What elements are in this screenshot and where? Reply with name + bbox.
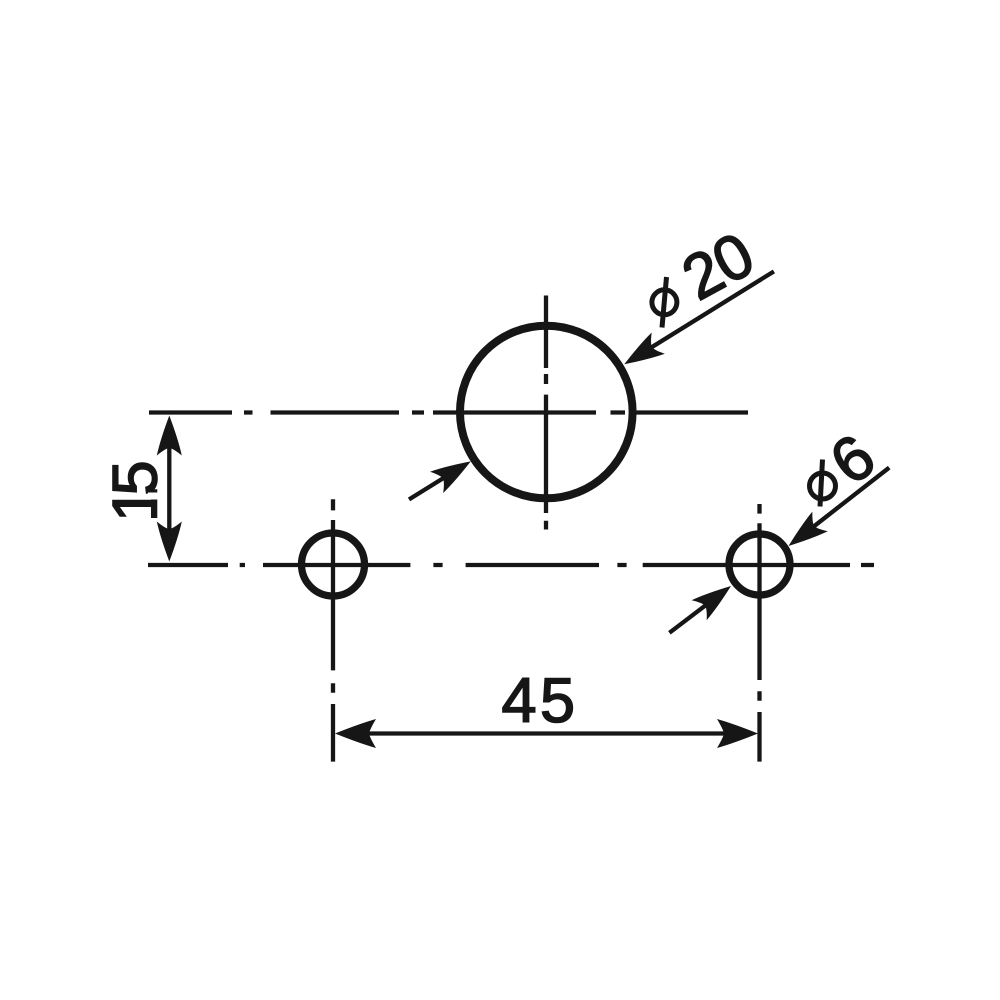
leader line D20 [633, 271, 774, 358]
phi symbol of D6 label [810, 473, 836, 499]
leader line D6 [796, 468, 889, 540]
svg-text:45: 45 [502, 666, 579, 736]
leader D6 second arrowhead [692, 576, 739, 620]
centerline horizontal upper (through D20 center) [149, 410, 748, 414]
dimension line 15 [167, 427, 171, 550]
leader D20 second arrow line (lower left) [409, 467, 462, 500]
dim45 arrow left [335, 719, 376, 748]
hole circle D6 left [302, 533, 365, 596]
leader D20 arrowhead [618, 332, 665, 374]
phi symbol of D20 label [652, 290, 677, 315]
centerline horizontal lower (through D6 centers) [148, 563, 874, 567]
svg-text:6: 6 [818, 421, 888, 498]
dim15 arrow up [157, 416, 182, 456]
dim45 arrow right [717, 719, 758, 748]
dim15 arrow down [157, 522, 182, 562]
dimension line 45 [349, 731, 744, 735]
centerline vertical D6 right [757, 504, 761, 762]
leader D20 second arrowhead [430, 451, 477, 493]
svg-text:15: 15 [101, 462, 171, 522]
white patch between 1 and 5 [148, 493, 160, 500]
hole circle D6 right [729, 534, 790, 595]
hole circle D20 [460, 326, 633, 499]
leader D6 second arrow line (lower left) [669, 591, 724, 633]
centerline vertical D20 [544, 296, 548, 530]
leader D6 arrowhead [781, 512, 828, 556]
svg-text:20: 20 [671, 220, 764, 314]
centerline vertical D6 left [331, 499, 335, 761]
